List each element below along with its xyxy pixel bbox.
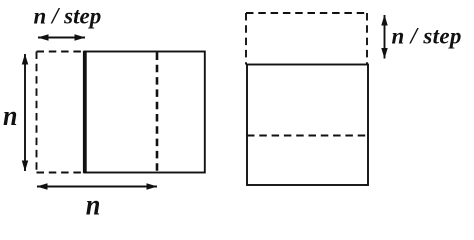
svg-text:n: n bbox=[86, 189, 101, 221]
svg-text:n: n bbox=[3, 99, 18, 132]
svg-text:n / step: n / step bbox=[392, 24, 462, 49]
svg-text:n / step: n / step bbox=[34, 4, 102, 29]
